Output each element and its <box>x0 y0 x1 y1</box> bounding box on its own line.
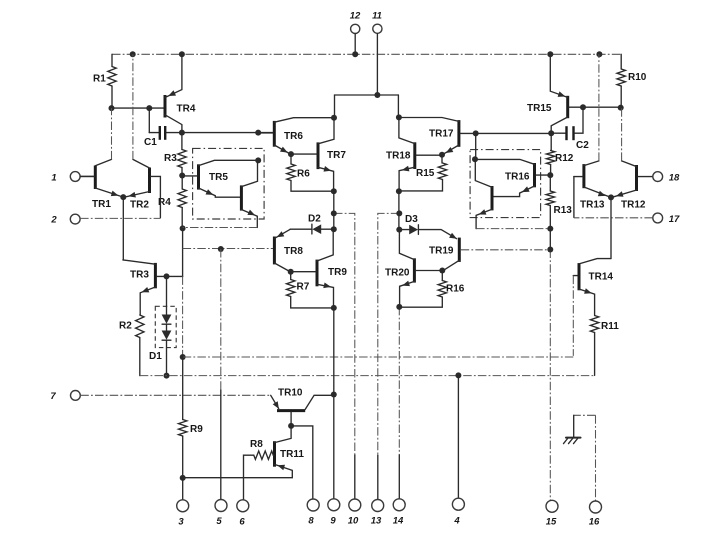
transistor TR16 second half <box>475 159 492 228</box>
svg-text:TR2: TR2 <box>130 200 149 211</box>
svg-text:TR6: TR6 <box>284 131 303 142</box>
pin 14 <box>393 307 405 527</box>
wire bias rail B <box>140 375 595 377</box>
pin 9 <box>328 395 340 527</box>
node TR8 collector <box>288 269 294 275</box>
node TR1-TR2 emitters <box>120 194 126 200</box>
node rail A tap <box>180 354 186 360</box>
node TR3 base / D1 top <box>164 273 170 279</box>
capacitor C2 <box>551 107 589 151</box>
wire TR15 base bus <box>583 106 621 108</box>
svg-text:13: 13 <box>371 516 382 527</box>
node R10 bottom <box>618 105 624 111</box>
transistor TR20 <box>385 230 441 307</box>
svg-text:12: 12 <box>350 11 361 22</box>
svg-text:D3: D3 <box>405 214 418 225</box>
pin 17 <box>574 213 680 225</box>
resistor R3 <box>164 133 186 176</box>
svg-text:R9: R9 <box>190 424 203 435</box>
node TR10 collector <box>331 392 337 398</box>
svg-text:8: 8 <box>308 516 314 527</box>
node TR6-TR17 collector left <box>331 115 337 121</box>
pin 13 <box>371 213 400 526</box>
svg-text:TR3: TR3 <box>130 270 149 281</box>
transistor TR1 <box>79 108 122 210</box>
svg-text:R7: R7 <box>297 282 310 293</box>
TR5 dashed enclosure <box>193 148 265 219</box>
pin 1 <box>51 172 94 184</box>
ground symbol <box>564 438 581 444</box>
transistor TR7 <box>291 118 346 191</box>
diode D2 <box>290 214 334 235</box>
node R12-R13 <box>547 172 553 178</box>
resistor R8 <box>244 439 274 500</box>
node TR16 collectors <box>472 156 478 162</box>
svg-text:D2: D2 <box>308 214 321 225</box>
svg-text:R2: R2 <box>119 321 132 332</box>
node TR17 emitter <box>439 152 445 158</box>
wire centre bus right <box>398 191 400 229</box>
transistor TR3 <box>123 260 167 315</box>
svg-text:R13: R13 <box>554 205 573 216</box>
svg-text:TR11: TR11 <box>280 449 304 460</box>
svg-text:5: 5 <box>216 516 222 527</box>
resistor R2 <box>119 315 144 376</box>
svg-text:17: 17 <box>669 214 680 225</box>
svg-text:15: 15 <box>546 517 557 528</box>
transistor TR5 first half <box>182 160 257 197</box>
node junction rail-pin12 <box>352 51 358 57</box>
resistor R1 <box>93 54 116 108</box>
svg-text:R6: R6 <box>297 169 310 180</box>
node R6 bottom <box>331 188 337 194</box>
resistor R4 <box>158 176 186 229</box>
wire bias rail A <box>183 356 574 358</box>
svg-text:TR4: TR4 <box>177 104 196 115</box>
node pin15 junction <box>547 247 553 253</box>
wire TR16 column top <box>475 133 477 159</box>
diode D3 <box>399 214 457 239</box>
transistor TR8 <box>274 229 303 271</box>
TR16 dashed enclosure <box>470 150 540 218</box>
svg-text:10: 10 <box>348 516 359 527</box>
node TR16 collector top <box>473 130 479 136</box>
node TR19 collector <box>439 268 445 274</box>
wire TR4 base <box>112 107 164 109</box>
svg-text:16: 16 <box>589 517 600 528</box>
transistor TR2 <box>125 54 161 218</box>
node TR4 base / C1 <box>146 105 152 111</box>
wire TR3 base link <box>167 275 183 277</box>
svg-text:R16: R16 <box>446 284 465 295</box>
node TR4 collector <box>179 130 185 136</box>
transistor TR16 first half <box>475 159 550 196</box>
diode D1 (dual) <box>149 276 171 375</box>
svg-text:4: 4 <box>453 516 460 527</box>
svg-text:TR14: TR14 <box>589 272 614 283</box>
node R1 bottom <box>109 105 115 111</box>
svg-text:9: 9 <box>330 516 336 527</box>
node R16 bottom <box>396 304 402 310</box>
pin 7 <box>50 391 270 403</box>
pin 12 <box>350 11 361 55</box>
svg-text:TR1: TR1 <box>92 199 111 210</box>
node pin10 junction <box>331 210 337 216</box>
svg-text:TR16: TR16 <box>505 172 530 183</box>
svg-text:C1: C1 <box>144 137 157 148</box>
wire TR5 emitter return <box>183 227 258 229</box>
transistor TR12 <box>612 108 653 211</box>
svg-text:TR13: TR13 <box>580 200 605 211</box>
wire top supply rail <box>112 53 621 55</box>
wire TR17 base bus <box>476 132 552 134</box>
svg-text:TR15: TR15 <box>527 103 552 114</box>
wire emitters to TR3 <box>122 197 124 260</box>
transistor TR10 <box>271 388 334 426</box>
pin 10 <box>334 213 361 526</box>
node R13 bottom <box>547 226 553 232</box>
resistor R16 <box>399 271 464 308</box>
transistor TR9 <box>291 229 348 308</box>
node TR5 collectors <box>255 157 261 163</box>
node pin13 junction <box>396 210 402 216</box>
svg-text:11: 11 <box>372 11 382 22</box>
node TR15 collector <box>548 130 554 136</box>
resistor R13 <box>546 175 572 229</box>
pin 4 <box>452 375 464 526</box>
resistor R12 <box>546 133 573 175</box>
wire C1 node bus <box>182 132 273 134</box>
svg-text:R10: R10 <box>628 72 647 83</box>
svg-text:1: 1 <box>51 173 56 184</box>
resistor R15 <box>399 155 447 191</box>
svg-text:TR20: TR20 <box>385 268 410 279</box>
node TR11 emitter-pin3 <box>180 475 186 481</box>
node pin4 tap <box>455 372 461 378</box>
svg-text:TR10: TR10 <box>278 388 303 399</box>
wire pin16 to ground <box>574 415 596 437</box>
transistor TR6 <box>258 118 334 154</box>
svg-text:TR5: TR5 <box>209 172 228 183</box>
pin 16 <box>589 415 602 527</box>
svg-text:3: 3 <box>178 517 184 528</box>
pin 3 <box>177 478 189 528</box>
transistor TR13 <box>574 54 610 217</box>
node pin5 tap <box>218 246 224 252</box>
resistor R7 <box>287 272 334 308</box>
wire TR9 emitter to TR10 <box>333 308 335 395</box>
svg-text:R15: R15 <box>416 168 435 179</box>
node junction rail-TR4 <box>179 51 185 57</box>
svg-text:R12: R12 <box>555 153 574 164</box>
wire TR16 emitter return <box>476 228 550 230</box>
wire emitters to TR14 <box>610 197 612 258</box>
node TR12-TR13 emitters <box>608 194 614 200</box>
svg-text:18: 18 <box>669 173 680 184</box>
svg-text:TR8: TR8 <box>284 246 303 257</box>
svg-text:R1: R1 <box>93 74 106 85</box>
svg-text:R3: R3 <box>164 153 177 164</box>
node pin11 junction <box>374 92 380 98</box>
transistor TR15 <box>527 54 583 133</box>
svg-text:R11: R11 <box>601 321 619 332</box>
svg-text:TR9: TR9 <box>328 267 347 278</box>
resistor R6 <box>287 154 334 191</box>
transistor TR17 <box>399 118 476 155</box>
resistor R9 <box>179 357 204 478</box>
node TR5 collector top <box>255 130 261 136</box>
node junction rail-TR2 <box>130 51 136 57</box>
node junction rail-TR15 <box>547 51 553 57</box>
svg-text:7: 7 <box>50 391 56 402</box>
svg-text:TR7: TR7 <box>327 150 346 161</box>
svg-text:R8: R8 <box>250 439 263 450</box>
wire center header <box>335 95 399 118</box>
svg-text:TR19: TR19 <box>429 246 454 257</box>
svg-text:TR17: TR17 <box>429 129 454 140</box>
wire TR10 base to pin8 <box>291 426 313 500</box>
svg-text:TR18: TR18 <box>386 151 411 162</box>
transistor TR4 <box>165 54 196 132</box>
node D2 cathode <box>331 226 337 232</box>
node junction rail-TR13 <box>596 51 602 57</box>
pin 15 <box>546 250 558 528</box>
node R3-R4-TR5base <box>179 173 185 179</box>
pin 18 <box>653 172 680 184</box>
svg-text:2: 2 <box>50 215 57 226</box>
D1 dashed enclosure <box>155 306 176 347</box>
node R15 bottom <box>396 188 402 194</box>
pin 8 <box>307 499 319 527</box>
node R7 bottom <box>331 305 337 311</box>
node D1 bottom <box>164 373 170 379</box>
transistor TR11 <box>183 426 305 478</box>
node TR6 emitter <box>288 151 294 157</box>
wire TR8 base feed <box>183 248 273 250</box>
pin 2 <box>50 214 160 225</box>
svg-text:TR12: TR12 <box>621 200 646 211</box>
svg-text:D1: D1 <box>149 351 162 362</box>
svg-text:C2: C2 <box>576 140 589 151</box>
transistor TR18 <box>386 117 441 191</box>
resistor R10 <box>617 54 647 107</box>
wire R4 node down <box>182 228 184 276</box>
pin 6 <box>237 500 249 528</box>
wire R13 node down <box>549 229 551 250</box>
capacitor C1 <box>144 108 182 148</box>
svg-text:6: 6 <box>239 517 245 528</box>
transistor TR14 <box>573 259 613 356</box>
node D3 anode <box>396 227 402 233</box>
wire centre bus left <box>333 191 335 229</box>
node R4 bottom <box>180 225 186 231</box>
pin 11 <box>372 11 382 96</box>
pin 5 <box>215 249 227 527</box>
svg-text:14: 14 <box>393 516 404 527</box>
node TR6-TR17 collector right <box>396 114 402 120</box>
transistor TR5 second half <box>241 160 257 227</box>
wire bus to rail <box>182 276 184 357</box>
transistor TR19 <box>429 238 550 271</box>
resistor R11 <box>590 316 619 376</box>
node TR10 base <box>288 423 294 429</box>
node C2 top <box>580 104 586 110</box>
